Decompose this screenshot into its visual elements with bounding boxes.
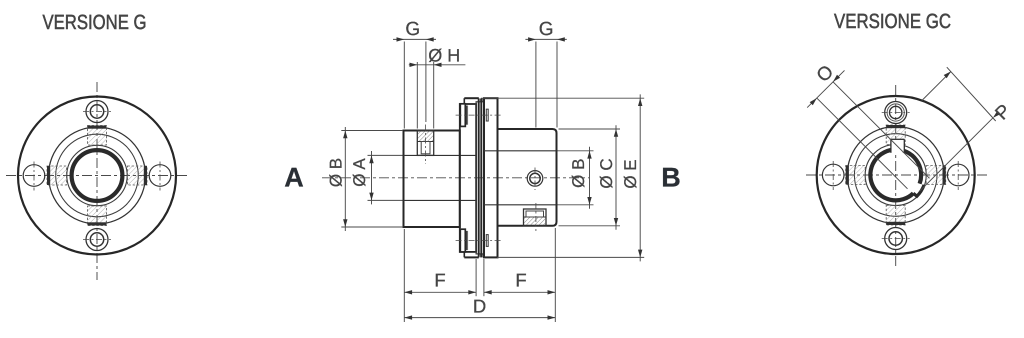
left view centerlines [96, 82, 98, 280]
flange bolt bottom [460, 229, 465, 252]
section axis centerline [322, 177, 589, 179]
hub A pin counterbore [417, 131, 433, 156]
left jaw bush E [128, 166, 148, 185]
elastic disc pack [476, 102, 484, 254]
dimension O [833, 82, 930, 179]
hub B outline [498, 129, 557, 226]
left flange outer circle [18, 97, 176, 255]
svg-text:VERSIONE G: VERSIONE G [43, 11, 147, 34]
dimension C [615, 125, 617, 230]
dimension B right [589, 147, 591, 209]
hub B pin counterbore [524, 209, 547, 226]
left jaw bush N [88, 126, 107, 146]
svg-text:A: A [284, 162, 304, 192]
dimension D [404, 317, 555, 319]
dimension G left [393, 38, 436, 40]
right keyway [891, 139, 904, 152]
flange plate A rim bottom [464, 256, 479, 258]
flange plate A [460, 104, 476, 252]
right bolt hole W [822, 164, 844, 186]
left jaw bush W [47, 166, 67, 185]
dimension E [639, 94, 641, 261]
dimension H [409, 64, 466, 66]
left bore ring [72, 150, 123, 201]
left bolt hole W [23, 165, 45, 187]
dimension G right [525, 38, 566, 40]
svg-text:Ø C: Ø C [597, 158, 616, 188]
hub B set screw [527, 171, 543, 187]
right bolt hole N [885, 102, 907, 124]
svg-text:F: F [515, 270, 526, 291]
svg-text:G: G [405, 19, 420, 40]
svg-text:D: D [473, 296, 486, 317]
flange plate B [484, 98, 498, 257]
svg-text:G: G [539, 19, 554, 40]
left bore step circle [67, 145, 127, 205]
svg-text:Ø B: Ø B [327, 158, 346, 187]
svg-text:F: F [434, 270, 445, 291]
dimension F right [484, 291, 555, 293]
dimension P [922, 71, 951, 100]
right flange pilot circle [847, 127, 944, 224]
hub B bore lines [484, 150, 557, 152]
left bolt hole N [86, 101, 108, 123]
dimension A [371, 151, 373, 204]
svg-text:B: B [661, 162, 681, 192]
right bore step circle [865, 145, 926, 206]
hub A outline [404, 131, 460, 228]
right view centerlines [895, 85, 897, 267]
left bolt hole S [86, 229, 108, 251]
right jaw bush E [926, 166, 946, 185]
hub A bore lines [404, 154, 477, 156]
right bolt hole E [947, 164, 969, 186]
svg-text:Ø H: Ø H [428, 45, 460, 65]
svg-text:Ø A: Ø A [350, 158, 369, 187]
left hub circle [56, 134, 139, 217]
right jaw bush N [886, 125, 905, 145]
flange plate A rim top [464, 97, 479, 99]
right jaw bush W [846, 166, 866, 185]
right clamping bore ring with slit [870, 150, 921, 201]
svg-text:Ø E: Ø E [621, 159, 640, 188]
left jaw bush S [88, 206, 107, 226]
dimension F left [404, 291, 476, 293]
right bolt hole S [885, 228, 907, 250]
right flange outer circle [817, 96, 975, 254]
svg-text:Ø B: Ø B [569, 159, 588, 188]
flange bolt top [460, 104, 465, 127]
left bolt hole E [149, 165, 171, 187]
left flange pilot circle [49, 127, 146, 224]
right hub circle [854, 134, 937, 217]
dimension B left [344, 127, 346, 231]
svg-text:VERSIONE GC: VERSIONE GC [834, 10, 951, 33]
right jaw bush S [886, 206, 905, 226]
